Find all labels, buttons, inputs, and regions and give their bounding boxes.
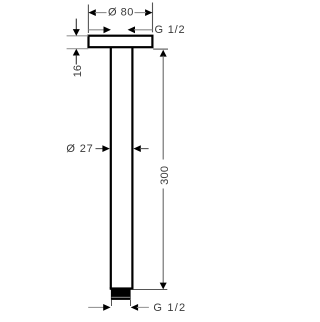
dimension Ø27 left arrow bbox=[96, 148, 105, 150]
svg-text:G 1/2: G 1/2 bbox=[153, 302, 186, 314]
dimension G1/2 bottom left arrow bbox=[88, 306, 105, 308]
svg-text:16: 16 bbox=[72, 65, 84, 77]
dimension Ø80 right arrow bbox=[145, 9, 152, 16]
pipe bottom end bar bbox=[110, 287, 134, 289]
thread block bottom bbox=[111, 289, 131, 300]
dimension 300 bottom extension line bbox=[134, 289, 168, 291]
dimension 16 lower extension tick bbox=[67, 48, 89, 50]
dimension Ø80 left extension line bbox=[87, 5, 89, 34]
dimension G1/2 top left arrow bbox=[88, 29, 105, 31]
thread left extension line bbox=[111, 300, 113, 306]
dimension G1/2 bottom right arrow bbox=[131, 304, 138, 311]
dimension Ø80 right extension line bbox=[152, 3, 154, 33]
svg-text:Ø 80: Ø 80 bbox=[108, 6, 134, 18]
svg-text:G 1/2: G 1/2 bbox=[155, 24, 186, 36]
dimension 300 top extension line bbox=[153, 48, 168, 50]
pipe left wall bbox=[110, 48, 112, 289]
flange (ceiling plate) bbox=[89, 36, 153, 48]
dimension G1/2 top right arrow bbox=[128, 26, 135, 33]
svg-text:300: 300 bbox=[159, 166, 171, 185]
thread white stripe bbox=[111, 296, 130, 299]
dimension 300 line upper segment with up arrow bbox=[160, 50, 167, 57]
dimension 300 line lower segment with down arrow bbox=[162, 189, 164, 284]
thread right extension line bbox=[130, 300, 132, 306]
dimension 16 upper extension tick bbox=[67, 35, 89, 37]
svg-text:Ø 27: Ø 27 bbox=[66, 143, 93, 155]
dimension 16 up arrow bbox=[73, 49, 80, 56]
dimension 16 down arrow bbox=[75, 19, 77, 30]
dimension Ø27 right arrow bbox=[133, 145, 140, 152]
pipe right wall bbox=[131, 48, 133, 289]
dimension Ø80 left arrow bbox=[88, 9, 95, 16]
